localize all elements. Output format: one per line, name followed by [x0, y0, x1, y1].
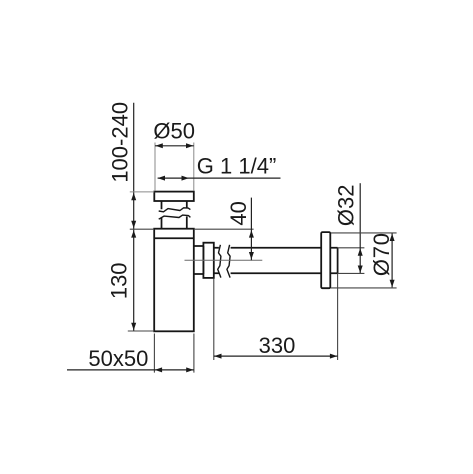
- arrow up 40: [249, 230, 254, 237]
- pipe end through wall flange: [337, 248, 339, 274]
- trap body cap line: [154, 237, 194, 239]
- outlet pipe top edge: [214, 247, 338, 249]
- break squiggle lower (inlet pipe): [159, 215, 191, 219]
- arrow right 50x50: [186, 367, 193, 372]
- dimension line 32 vertical: [359, 183, 361, 273]
- label G 1 1/4: [197, 154, 276, 179]
- wall flange (escutcheon 70): [321, 232, 330, 288]
- arrow down at body bottom: [131, 323, 136, 330]
- label diameter 70: [369, 232, 394, 276]
- svg-text:40: 40: [226, 201, 251, 225]
- svg-text:130: 130: [106, 262, 131, 299]
- break squiggle upper (inlet pipe): [159, 208, 191, 212]
- label diameter 50: [153, 119, 195, 144]
- dimension line diameter 50: [155, 145, 194, 147]
- svg-text:50x50: 50x50: [88, 346, 148, 371]
- dimension line 40 vertical: [250, 198, 252, 261]
- extension lines diameter 50: [155, 143, 194, 191]
- outlet stub: [194, 246, 204, 274]
- label 130: [106, 262, 131, 299]
- break squiggle right (outlet pipe): [227, 245, 230, 278]
- label 50x50: [88, 346, 148, 371]
- arrow left d50: [155, 143, 162, 148]
- arrow down at body top (above): [131, 221, 136, 228]
- inlet flange (top escutcheon): [154, 192, 194, 201]
- label diameter 32: [333, 185, 358, 227]
- inlet threaded pipe G 1 1/4: [162, 201, 187, 229]
- pipe centerline: [185, 259, 263, 261]
- extension lines 50x50: [154, 334, 194, 373]
- extension line body bottom left: [128, 330, 154, 332]
- arrow left G: [158, 176, 165, 181]
- break squiggle left (outlet pipe): [218, 245, 221, 278]
- svg-text:330: 330: [259, 333, 296, 358]
- dimension line G 1 1/4 with leader: [158, 177, 281, 179]
- svg-text:Ø70: Ø70: [369, 232, 394, 276]
- svg-text:Ø32: Ø32: [333, 185, 358, 227]
- svg-text:G 1 1/4”: G 1 1/4”: [197, 154, 276, 179]
- arrow up at flange top: [131, 193, 136, 200]
- extension line body top right (for 40): [194, 228, 254, 230]
- arrow right 330: [330, 354, 337, 359]
- extension lines diameter 70: [331, 233, 397, 288]
- label 330: [259, 333, 296, 358]
- dimension 100-240 / 130 vertical line: [133, 103, 135, 331]
- arrow up d70: [390, 234, 395, 241]
- extension line 330 left (from nut): [213, 279, 215, 361]
- dimension line 330: [214, 355, 338, 357]
- extension line body top left: [130, 228, 154, 230]
- extension line flange top: [130, 191, 155, 193]
- outlet nut: [203, 243, 213, 278]
- label 100-240: [107, 102, 132, 183]
- label 40: [226, 201, 251, 225]
- arrow down 40: [249, 252, 254, 259]
- dimension line 50x50 with leader: [67, 369, 194, 371]
- dimension line 70 vertical: [391, 233, 393, 287]
- arrow left 50x50: [155, 367, 162, 372]
- extension line 330 right (from pipe end): [337, 274, 339, 360]
- extension lines diameter 32: [338, 248, 365, 274]
- trap body (bottle 50x50): [154, 229, 194, 332]
- arrow up at body top (below): [131, 230, 136, 237]
- arrow right G: [182, 176, 189, 181]
- arrow right d50: [186, 143, 193, 148]
- arrow up d32: [358, 248, 363, 255]
- svg-text:100-240: 100-240: [107, 102, 132, 183]
- arrow down d70: [390, 280, 395, 287]
- svg-text:Ø50: Ø50: [153, 119, 195, 144]
- arrow down d32: [358, 266, 363, 273]
- outlet pipe bottom edge: [214, 272, 338, 274]
- arrow left 330: [214, 354, 221, 359]
